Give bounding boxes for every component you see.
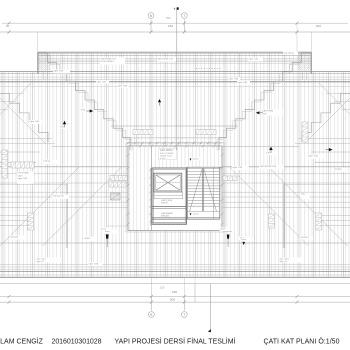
section line top xyxy=(176,8,178,150)
label left B xyxy=(52,195,69,200)
dim chain left col xyxy=(2,150,8,178)
stepped hip top-right xyxy=(219,53,311,150)
label above tri2 xyxy=(241,238,253,241)
label under tri L xyxy=(60,126,71,130)
stepped hip top-right inner xyxy=(217,55,308,151)
label wing eave xyxy=(53,70,70,74)
tick dimension line above penthouse xyxy=(128,142,222,144)
svg-text:%33: %33 xyxy=(262,113,267,115)
svg-text:ÇATI ARASI: ÇATI ARASI xyxy=(161,212,173,215)
svg-text:mahya: mahya xyxy=(335,169,342,171)
top dimension line 1 xyxy=(2,22,348,24)
penthouse outer wall xyxy=(128,146,222,231)
svg-text:6: 6 xyxy=(150,14,152,18)
bottom eave band xyxy=(0,264,350,266)
svg-text:çörten: çörten xyxy=(193,213,199,216)
top dimension line 2 xyxy=(0,31,350,33)
svg-text:eğim %33: eğim %33 xyxy=(30,120,41,123)
right wing hip B xyxy=(268,167,348,247)
left side wing ridge/eave horizontals xyxy=(0,151,40,153)
dim chain above box right xyxy=(196,130,216,135)
left wing hip A xyxy=(0,167,80,247)
svg-text:OTURTMA: OTURTMA xyxy=(18,172,29,175)
label right edge low xyxy=(301,236,313,240)
penthouse inner left line xyxy=(150,146,152,231)
svg-text:mahya hattı: mahya hattı xyxy=(53,195,65,198)
valley right edge upper xyxy=(319,83,350,115)
wing side walls xyxy=(37,52,39,73)
svg-text:ÇATI EĞİMİ %33: ÇATI EĞİMİ %33 xyxy=(260,165,277,168)
svg-text:(EĞİM %33): (EĞİM %33) xyxy=(160,154,172,157)
svg-text:çörten: çörten xyxy=(193,158,199,161)
svg-text:%33: %33 xyxy=(81,110,86,112)
svg-text:ÇATI EĞİM: ÇATI EĞİM xyxy=(262,110,273,113)
label right of box xyxy=(232,166,249,170)
grid bubble 6 top xyxy=(148,13,154,19)
svg-text:110/110: 110/110 xyxy=(11,237,19,239)
svg-text:eğim %1: eğim %1 xyxy=(37,260,46,263)
elevator shaft xyxy=(154,173,182,192)
label bottom right xyxy=(240,237,253,241)
dim chain left mid row xyxy=(11,162,34,168)
slope marker triangle mid-left xyxy=(158,99,161,102)
label under box right xyxy=(220,228,231,232)
slope marker arrow left upper-right xyxy=(256,111,260,114)
svg-text:eğim %33: eğim %33 xyxy=(89,263,100,266)
svg-text:7: 7 xyxy=(183,313,185,317)
svg-text:90: 90 xyxy=(6,24,10,28)
darker batten lines xyxy=(3,53,343,277)
left wing hip B xyxy=(43,167,123,247)
spout marker upper (black) xyxy=(190,159,192,161)
svg-text:150: 150 xyxy=(168,24,173,28)
label left big xyxy=(17,172,34,184)
dim chain center-left row A xyxy=(110,176,127,181)
right side wing ridge/eave horizontals xyxy=(311,151,350,153)
label right upper xyxy=(308,155,325,159)
svg-text:500: 500 xyxy=(170,298,175,302)
top dim ticks xyxy=(8,22,299,34)
dim chain right col upper xyxy=(302,122,308,142)
upper wing ridge line xyxy=(111,125,238,127)
roof hatch vertical battens xyxy=(1,53,349,277)
label bottom eave right xyxy=(279,258,304,263)
side batten shorts xyxy=(0,93,24,95)
stepped hip top-left inner xyxy=(41,55,132,151)
svg-text:30/60: 30/60 xyxy=(85,238,91,240)
label left of arrow xyxy=(80,109,91,113)
axis extension lines top xyxy=(150,20,152,33)
svg-text:eğim %33: eğim %33 xyxy=(238,81,249,84)
ridge connectors to penthouse xyxy=(52,145,128,147)
core left tick dim line xyxy=(150,168,152,226)
chimney block left of penthouse xyxy=(111,193,121,200)
label right of arrow xyxy=(262,110,283,116)
svg-text:2016010301028: 2016010301028 xyxy=(52,339,102,346)
dim chain above box left xyxy=(133,130,153,135)
axis extension lines bottom xyxy=(150,296,152,310)
upper line above penthouse xyxy=(123,137,226,139)
svg-text:eğim %33: eğim %33 xyxy=(97,80,108,83)
stair landing lines xyxy=(187,205,220,207)
slope marker arrow right far-right xyxy=(329,148,333,151)
roof space label block xyxy=(159,148,177,160)
penthouse outer curb xyxy=(126,143,224,233)
label spout lower xyxy=(193,213,202,216)
svg-text:h:150: h:150 xyxy=(160,158,166,160)
stepped hip top-left xyxy=(38,53,130,150)
section line bottom xyxy=(209,284,211,331)
label left edge low xyxy=(10,236,24,240)
label above tri1 xyxy=(105,230,117,234)
lower side horizontals xyxy=(0,214,28,216)
chimney marker right of box (black) xyxy=(227,235,230,239)
svg-text:OLUK DETAYI: OLUK DETAYI xyxy=(101,60,114,63)
svg-text:6: 6 xyxy=(150,313,152,317)
spout marker lower (black) xyxy=(190,213,192,215)
stepped hip right edge xyxy=(302,94,350,143)
chimney marker left (black) xyxy=(106,234,109,238)
label left eave B xyxy=(117,85,129,88)
main body top eave band xyxy=(0,70,350,72)
svg-text:eğim %1: eğim %1 xyxy=(280,260,289,263)
label left eave A xyxy=(96,80,109,84)
label wing top right xyxy=(283,51,298,55)
svg-text:eğim %33: eğim %33 xyxy=(233,166,244,169)
label right low xyxy=(301,193,310,200)
svg-text:SLAM CENGİZ: SLAM CENGİZ xyxy=(0,337,44,346)
svg-text:ÇATI KAT PLANI Ö:1/50: ÇATI KAT PLANI Ö:1/50 xyxy=(264,338,340,346)
svg-text:560: 560 xyxy=(316,24,321,28)
elevator slab band xyxy=(154,192,183,199)
svg-text:150: 150 xyxy=(160,285,165,289)
right wing hip A xyxy=(229,167,309,247)
dim chain center-left row B xyxy=(109,182,126,187)
hip from left edge upper xyxy=(0,98,45,143)
label top center xyxy=(157,57,176,61)
label under box left xyxy=(100,228,111,232)
bottom dimension line 1 xyxy=(0,283,350,285)
left wing vertical ridge double xyxy=(65,184,67,249)
label wing right xyxy=(248,57,263,61)
core dividing wall xyxy=(152,206,187,208)
slope marker triangle up right xyxy=(269,147,272,150)
svg-text:B.A. DÖŞEME: B.A. DÖŞEME xyxy=(160,152,174,155)
label left of chimney xyxy=(84,237,96,242)
slope marker triangle up left xyxy=(63,121,66,124)
label spout upper xyxy=(193,158,202,161)
top-right eave corner crosshatch xyxy=(298,53,311,70)
svg-text:350: 350 xyxy=(166,16,171,20)
upper wing eave lines xyxy=(38,51,312,53)
svg-text:ÇATI: ÇATI xyxy=(18,174,23,177)
right wing vertical ridge double xyxy=(283,184,285,249)
svg-text:eğim %33: eğim %33 xyxy=(249,58,260,61)
dim chain left lower col xyxy=(28,213,34,230)
label right eave B xyxy=(237,81,250,85)
dim chain right col lower xyxy=(269,214,275,228)
dotted dim row top-center xyxy=(196,68,222,70)
svg-text:eğim %33: eğim %33 xyxy=(229,77,240,80)
svg-text:eğim %33: eğim %33 xyxy=(308,155,319,158)
slope marker arrow right upper-left xyxy=(90,109,94,112)
label under tri R xyxy=(266,152,277,156)
svg-text:150: 150 xyxy=(172,290,177,294)
svg-text:MEKANI: MEKANI xyxy=(161,215,169,218)
svg-text:ÇATI ÇIKIŞ: ÇATI ÇIKIŞ xyxy=(161,199,173,202)
label bottom eave left xyxy=(36,258,61,263)
label bottom left xyxy=(88,262,102,266)
core bottom walls xyxy=(152,217,220,219)
label left A xyxy=(43,160,58,165)
svg-text:KAPISI: KAPISI xyxy=(161,201,168,204)
stair walk lines xyxy=(190,170,203,212)
svg-text:ÇATI EĞİMİ %33: ÇATI EĞİMİ %33 xyxy=(158,57,174,60)
svg-text:eğim %33: eğim %33 xyxy=(118,85,129,88)
left edge connector lines xyxy=(0,138,52,140)
svg-text:eğim %33: eğim %33 xyxy=(18,177,29,180)
bottom dim ticks xyxy=(8,295,299,304)
svg-text:7: 7 xyxy=(183,14,185,18)
chimney marker right (black) xyxy=(242,242,245,245)
bottom dimension line 2 xyxy=(0,295,350,297)
label right eave A xyxy=(228,77,240,81)
bottom dimension line 3 xyxy=(0,301,350,303)
svg-text:baca: baca xyxy=(105,231,111,233)
hip from right edge upper xyxy=(305,98,350,143)
dim chain right lower col xyxy=(316,213,322,230)
top-left eave corner crosshatch xyxy=(38,53,51,70)
svg-text:eğim %33: eğim %33 xyxy=(54,70,65,73)
svg-text:oluk detayı: oluk detayı xyxy=(284,51,295,54)
svg-text:ÇATI ARASI: ÇATI ARASI xyxy=(160,149,173,152)
staircase xyxy=(186,167,188,219)
axis extension lines below plan xyxy=(150,277,152,296)
label left edge mid xyxy=(29,120,42,124)
valley left edge upper xyxy=(0,83,31,115)
label right edge xyxy=(335,168,349,173)
grid bubble 7 bottom xyxy=(181,312,187,318)
mid ridge line lower xyxy=(0,242,350,244)
stepped hip left edge xyxy=(0,94,48,143)
short line under box left xyxy=(107,225,128,227)
section tick marks (black) xyxy=(174,8,175,10)
dimension ticks along penthouse left/top edges xyxy=(127,145,224,226)
svg-text:mahya: mahya xyxy=(44,161,51,163)
dim chain right of box xyxy=(223,176,237,181)
svg-text:baca: baca xyxy=(242,239,248,241)
svg-text:YAPI PROJESİ DERSİ FİNAL TESLİ: YAPI PROJESİ DERSİ FİNAL TESLİMİ xyxy=(115,337,236,346)
core outer wall xyxy=(152,168,187,224)
svg-text:110/110: 110/110 xyxy=(301,237,309,239)
label wing left xyxy=(100,58,125,65)
label right ridge xyxy=(259,165,284,170)
hatch inside penthouse upper band xyxy=(130,146,223,231)
svg-text:%33: %33 xyxy=(266,153,271,155)
section arrow bottom (black) xyxy=(208,329,211,332)
grid bubble 6 bottom xyxy=(149,312,155,318)
grid bubble 7 top xyxy=(181,13,187,19)
svg-text:çörten: çörten xyxy=(220,228,226,231)
